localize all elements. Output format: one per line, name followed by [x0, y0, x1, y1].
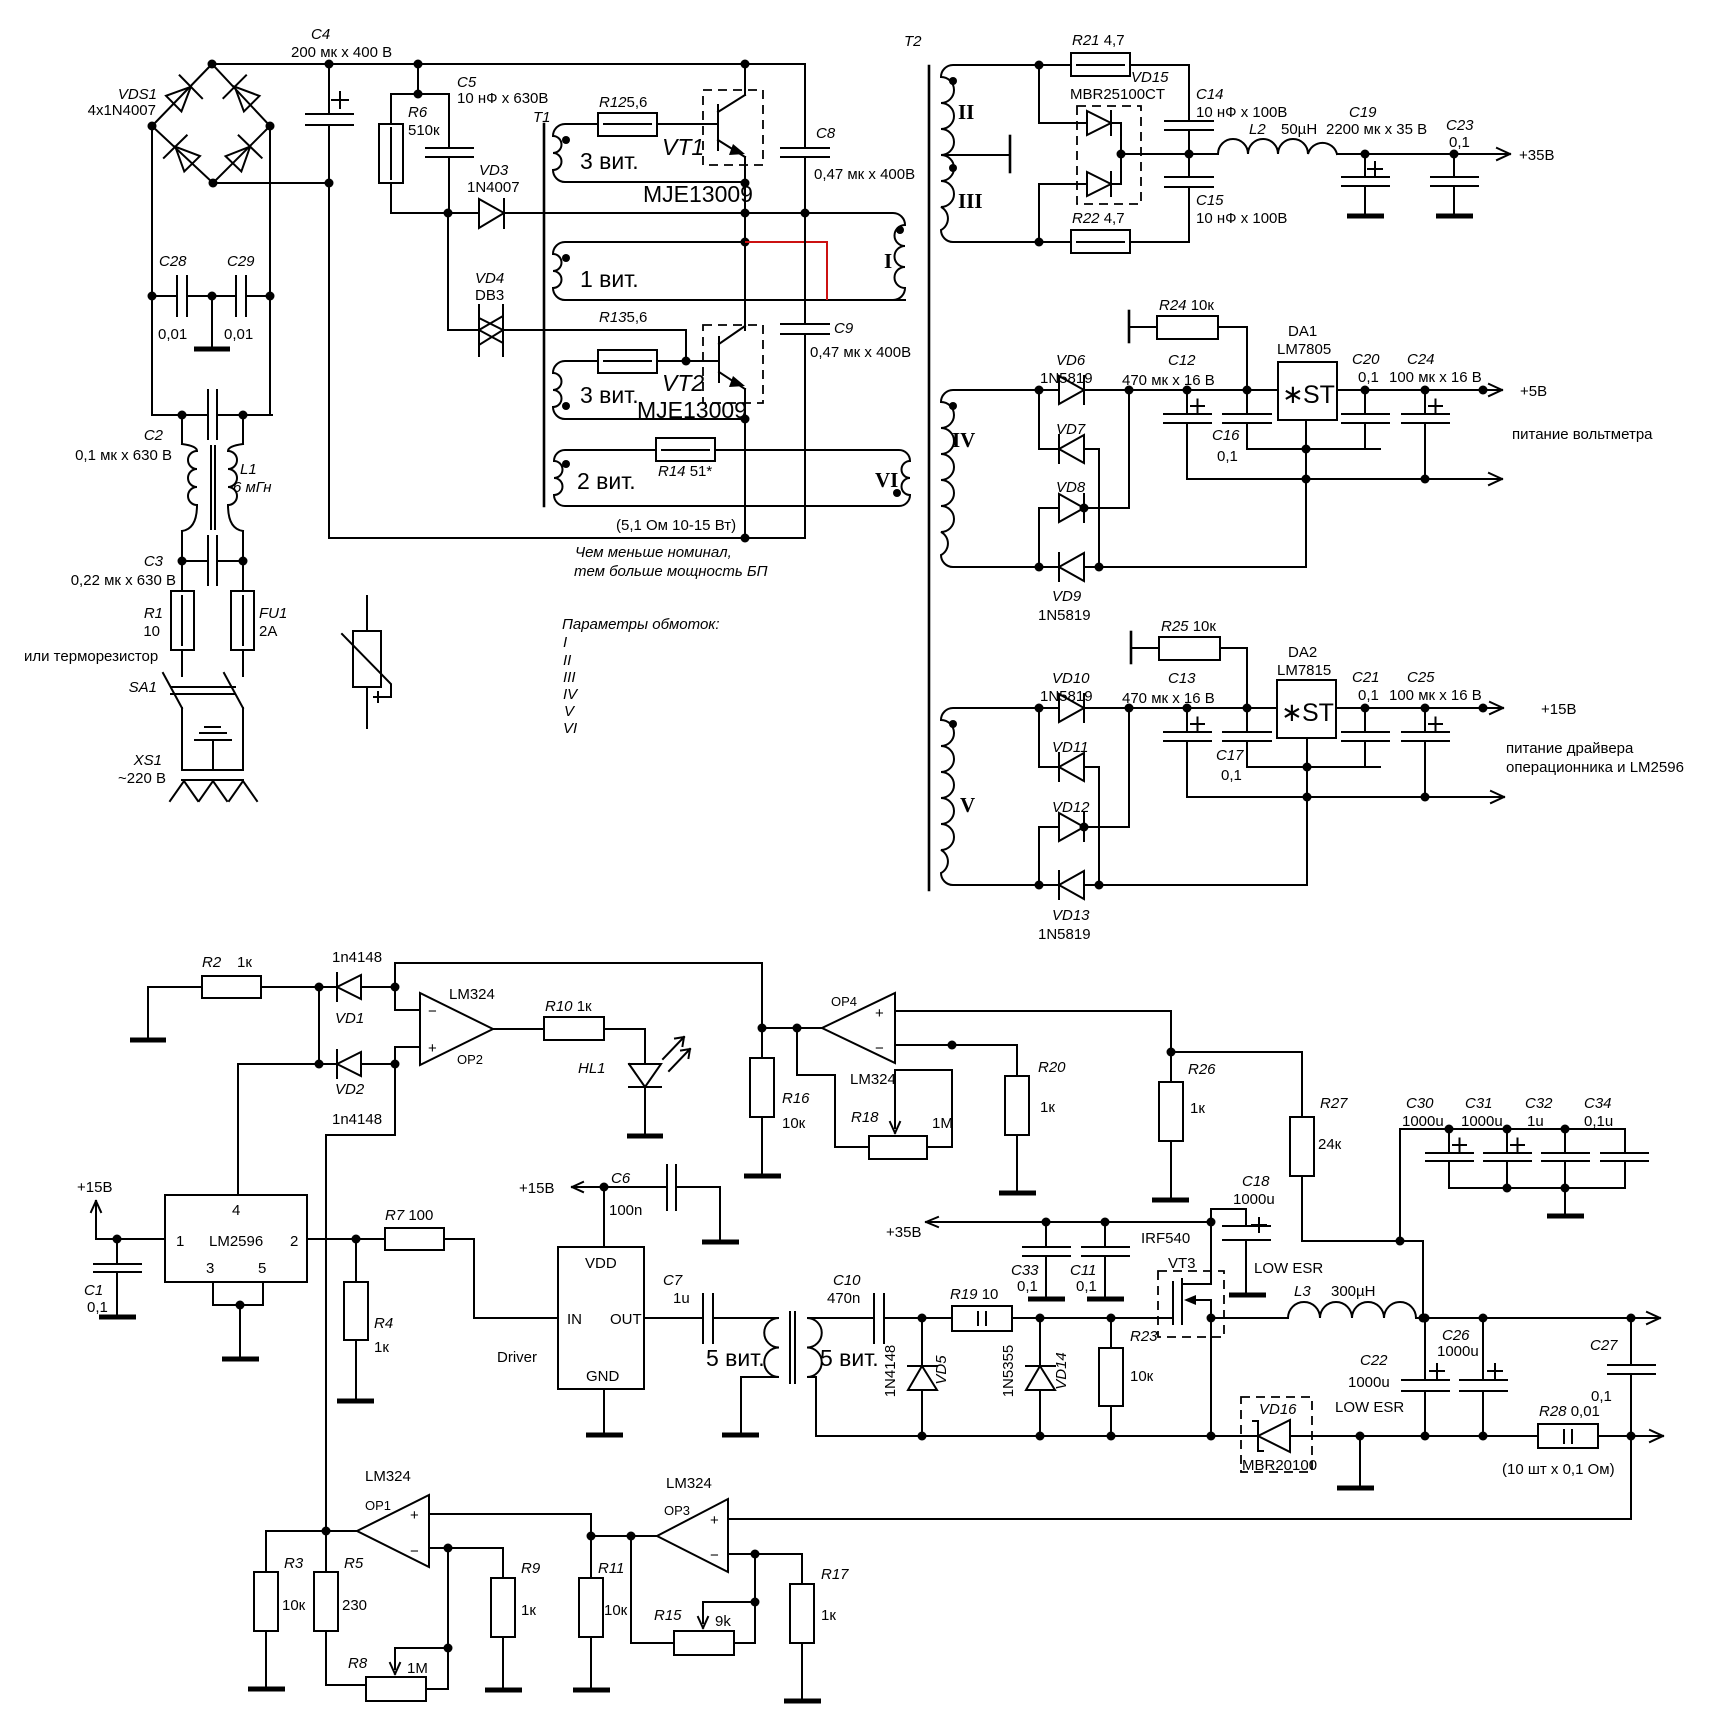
diode VD16 dashed box — [1241, 1397, 1312, 1472]
node L2 input — [1185, 150, 1194, 159]
svg-text:1N5355: 1N5355 — [1000, 1345, 1017, 1398]
svg-text:230: 230 — [342, 1597, 367, 1614]
+35V output wire — [1337, 148, 1510, 160]
svg-text:10к: 10к — [604, 1602, 628, 1619]
diode VD5 — [908, 1318, 937, 1436]
svg-text:(5,1 Ом 10-15 Вт): (5,1 Ом 10-15 Вт) — [616, 517, 736, 534]
svg-text:9k: 9k — [715, 1613, 731, 1630]
resistor R24 with tap bar — [1128, 311, 1131, 342]
svg-text:DB3: DB3 — [475, 287, 504, 304]
svg-text:VD6: VD6 — [1056, 352, 1086, 369]
svg-text:C2: C2 — [144, 427, 164, 444]
svg-text:(10 шт х 0,1 Ом): (10 шт х 0,1 Ом) — [1502, 1461, 1615, 1478]
choke L1 right winding — [228, 444, 243, 531]
svg-text:0,1 мк х 630 В: 0,1 мк х 630 В — [75, 447, 172, 464]
diode VD14 — [1026, 1318, 1055, 1436]
svg-text:R4: R4 — [374, 1315, 393, 1332]
svg-text:5: 5 — [258, 1260, 266, 1277]
svg-text:−: − — [410, 1543, 419, 1560]
mosfet VT3 — [1173, 1222, 1288, 1324]
node +15V out — [1479, 704, 1488, 713]
svg-text:VD9: VD9 — [1052, 588, 1082, 605]
node C25 bottom — [1421, 793, 1430, 802]
node C3 left — [178, 557, 187, 566]
T2 winding II+III coil — [941, 65, 1039, 242]
OP4 inverting input wire — [895, 1044, 1017, 1046]
node C2 right — [239, 411, 248, 420]
resistor R20 — [1016, 1045, 1018, 1192]
svg-text:R16: R16 — [782, 1090, 810, 1107]
capacitor C26 — [1460, 1318, 1507, 1436]
svg-text:R17: R17 — [821, 1566, 849, 1583]
capacitor C16 — [1223, 390, 1380, 449]
svg-text:FU1: FU1 — [259, 605, 287, 622]
OP4 non-inverting input wire — [895, 1011, 1171, 1052]
node VD13 right — [1095, 881, 1104, 890]
svg-text:R6: R6 — [408, 104, 428, 121]
svg-text:или терморезистор: или терморезистор — [24, 648, 158, 665]
node VT3 source — [1207, 1314, 1216, 1323]
svg-text:VI: VI — [875, 468, 898, 492]
svg-text:VD7: VD7 — [1056, 421, 1086, 438]
bottom return rail — [816, 1430, 1663, 1442]
svg-text:Параметры обмоток:: Параметры обмоток: — [562, 616, 720, 633]
node R24 bottom — [1243, 386, 1252, 395]
inductor L3 — [1288, 1302, 1416, 1318]
svg-text:MBR20100: MBR20100 — [1242, 1457, 1317, 1474]
node w2 polarity dot — [562, 254, 570, 262]
svg-text:100 мк х 16 В: 100 мк х 16 В — [1389, 369, 1482, 386]
thermistor alternative part — [366, 596, 368, 728]
node C25 — [1421, 704, 1430, 713]
svg-text:C24: C24 — [1407, 351, 1435, 368]
node C19 — [1361, 150, 1370, 159]
switch SA1 — [163, 673, 243, 708]
svg-text:+15В: +15В — [1541, 701, 1576, 718]
R18 feedback path — [797, 1028, 869, 1147]
svg-text:R14 51*: R14 51* — [658, 463, 712, 480]
svg-text:VI: VI — [563, 720, 577, 737]
feedback node wiring at OP2 — [326, 963, 420, 1531]
plug prongs — [170, 781, 257, 801]
transistor VT1 dashed box — [703, 90, 763, 165]
OP1 non-inverting input wire — [429, 1514, 591, 1536]
svg-text:C28: C28 — [159, 253, 187, 270]
svg-text:4: 4 — [232, 1202, 240, 1219]
bridge diode D3 (bottom-left edge) — [164, 135, 204, 175]
node VD14 bottom — [1036, 1432, 1045, 1441]
svg-text:LM324: LM324 — [365, 1468, 411, 1485]
svg-text:OP1: OP1 — [365, 1498, 391, 1513]
VT3 source to return rail — [1210, 1318, 1212, 1436]
svg-text:LM7805: LM7805 — [1277, 341, 1331, 358]
svg-text:Driver: Driver — [497, 1349, 537, 1366]
node VD2 cathode — [391, 1060, 400, 1069]
wire top rail to R6/C5 pair — [391, 64, 449, 213]
svg-text:1n4148: 1n4148 — [332, 1111, 382, 1128]
top +310V rail — [212, 63, 805, 65]
resistor R23 — [1110, 1318, 1112, 1436]
node R8 wiper — [444, 1644, 453, 1653]
svg-text:C7: C7 — [663, 1272, 683, 1289]
svg-text:470 мк х 16 В: 470 мк х 16 В — [1122, 372, 1215, 389]
svg-text:VD14: VD14 — [1053, 1352, 1070, 1390]
svg-text:R5: R5 — [344, 1555, 364, 1572]
DA1 ground pin — [1305, 420, 1307, 566]
node VT1 emitter / w1 end — [741, 179, 750, 188]
capacitor C19 — [1342, 154, 1389, 215]
node C8 bottom rail — [801, 209, 810, 218]
diode VD3 — [448, 199, 745, 228]
svg-text:VT1: VT1 — [662, 134, 704, 160]
C14/C15 right rail — [1188, 65, 1190, 242]
svg-text:III: III — [958, 189, 983, 213]
node C27 top — [1627, 1314, 1636, 1323]
transistor VT1 — [718, 95, 745, 157]
resistor R17 — [790, 1584, 814, 1643]
diode VD2 — [238, 1050, 395, 1078]
svg-text:LOW ESR: LOW ESR — [1254, 1260, 1323, 1277]
LM2596 pins 3,5 to ground — [213, 1282, 263, 1358]
svg-text:OP3: OP3 — [664, 1503, 690, 1518]
resistor R11 — [590, 1536, 592, 1689]
node OP1 -in — [444, 1544, 453, 1553]
OP2 output feedback wire — [395, 962, 762, 964]
svg-text:C11: C11 — [1070, 1262, 1096, 1279]
svg-text:VD15: VD15 — [1131, 69, 1169, 86]
diode VD12 branch — [1039, 708, 1129, 885]
svg-text:VD2: VD2 — [335, 1081, 365, 1098]
svg-text:XS1: XS1 — [133, 752, 162, 769]
svg-text:1N4148: 1N4148 — [882, 1345, 899, 1398]
capacitor C15 — [1165, 177, 1213, 187]
resistor R5 — [326, 1531, 366, 1685]
diode VD10 — [1039, 694, 1189, 722]
svg-text:+: + — [410, 1507, 419, 1524]
svg-text:C30: C30 — [1406, 1095, 1434, 1112]
resistor R12 — [598, 113, 657, 136]
svg-text:1M: 1M — [407, 1660, 428, 1677]
T1 winding w3 (3 vit) — [553, 361, 745, 419]
capacitor C31 — [1484, 1129, 1531, 1188]
svg-text:2200 мк х 35 В: 2200 мк х 35 В — [1326, 121, 1427, 138]
svg-text:1: 1 — [176, 1233, 184, 1250]
OP1 output wires — [266, 1531, 357, 1572]
svg-text:R20: R20 — [1038, 1059, 1066, 1076]
driver GND wire — [603, 1389, 605, 1434]
resistor R4 — [355, 1239, 357, 1400]
resistor R3 — [254, 1572, 278, 1631]
svg-text:1000u: 1000u — [1402, 1113, 1444, 1130]
node VD8 cathode — [1080, 504, 1089, 513]
node VD6 cathode junction — [1125, 386, 1134, 395]
svg-text:2A: 2A — [259, 623, 277, 640]
capacitor C27 — [1608, 1318, 1655, 1436]
svg-text:R135,6: R135,6 — [599, 309, 647, 326]
svg-text:R19 10: R19 10 — [950, 1286, 998, 1303]
svg-text:0,01: 0,01 — [158, 326, 187, 343]
svg-text:1к: 1к — [374, 1339, 389, 1356]
svg-text:VT3: VT3 — [1168, 1255, 1196, 1272]
node C32 bottom — [1561, 1184, 1570, 1193]
node C24 — [1421, 386, 1430, 395]
node bridge bottom bus — [325, 179, 334, 188]
resistor R6 — [379, 124, 403, 183]
node C27 bottom rail — [1627, 1432, 1636, 1441]
node C12 top — [1183, 386, 1192, 395]
op-amp OP3 — [657, 1499, 728, 1572]
svg-text:I: I — [884, 249, 892, 273]
capacitor C7 — [644, 1294, 772, 1343]
svg-text:C29: C29 — [227, 253, 255, 270]
VD15 diode b — [1087, 172, 1111, 196]
svg-text:1N5819: 1N5819 — [1040, 688, 1093, 705]
node VD3/emitter — [741, 209, 750, 218]
resistor R19 — [952, 1306, 1012, 1331]
regulator DA2 box — [1277, 680, 1336, 738]
VD15 cathode join — [1111, 123, 1218, 184]
svg-text:200 мк х 400 В: 200 мк х 400 В — [291, 44, 392, 61]
svg-text:GND: GND — [586, 1368, 620, 1385]
VD15 diode a — [1087, 111, 1111, 135]
svg-text:100n: 100n — [609, 1202, 642, 1219]
VD1/VD2 anode link — [318, 987, 320, 1064]
svg-text:1N4007: 1N4007 — [467, 179, 520, 196]
svg-text:VDD: VDD — [585, 1255, 617, 1272]
svg-text:R21 4,7: R21 4,7 — [1072, 32, 1125, 49]
svg-text:6 мГн: 6 мГн — [233, 479, 272, 496]
node C22 top — [1421, 1314, 1430, 1323]
node VT2 emitter / w3 end — [741, 415, 750, 424]
svg-text:0,1: 0,1 — [1591, 1388, 1612, 1405]
choke L1 leads — [182, 415, 243, 561]
node winding VI dot — [893, 489, 901, 497]
node winding IV dot — [949, 402, 957, 410]
node C28 left — [148, 292, 157, 301]
svg-text:R22 4,7: R22 4,7 — [1072, 210, 1125, 227]
node winding I dot — [896, 226, 904, 234]
bridge rectifier VDS1 diamond — [152, 64, 270, 183]
driver IC box — [558, 1247, 644, 1389]
node C5/VD3 bottom — [444, 209, 453, 218]
diode VD1 — [319, 973, 395, 1001]
svg-text:470 мк х 16 В: 470 мк х 16 В — [1122, 690, 1215, 707]
svg-text:питание вольтметра: питание вольтметра — [1512, 426, 1653, 443]
capacitor C23 — [1431, 154, 1478, 215]
potentiometer R15 — [674, 1631, 734, 1655]
capacitor C10 — [874, 1294, 922, 1343]
svg-text:2: 2 — [290, 1233, 298, 1250]
capacitor C29 — [212, 276, 270, 316]
inductor L2 — [1218, 139, 1337, 154]
svg-text:IN: IN — [567, 1311, 582, 1328]
node R6/C5 top bar — [414, 90, 423, 99]
svg-text:R10 1к: R10 1к — [545, 998, 592, 1015]
+15V feed to pin1 — [91, 1201, 165, 1239]
choke L1 core — [211, 446, 215, 529]
svg-text:−: − — [875, 1040, 884, 1057]
svg-text:∗: ∗ — [1281, 697, 1303, 727]
node VD10 anode junction — [1035, 704, 1044, 713]
node R23 top — [1107, 1314, 1116, 1323]
capacitor C1 — [94, 1239, 141, 1316]
node VD13 left — [1035, 881, 1044, 890]
resistor R13 — [598, 350, 657, 373]
node bridge bottom — [209, 179, 218, 188]
node VD2 anode — [315, 1060, 324, 1069]
capacitor C9 with rail — [781, 213, 829, 538]
svg-text:1000u: 1000u — [1461, 1113, 1503, 1130]
OP3 inverting input wire — [728, 1554, 802, 1584]
svg-text:C5: C5 — [457, 74, 477, 91]
svg-text:VD5: VD5 — [933, 1355, 950, 1385]
svg-text:C26: C26 — [1442, 1327, 1470, 1344]
svg-text:I: I — [563, 634, 567, 651]
svg-text:OP2: OP2 — [457, 1052, 483, 1067]
regulator LM2596 box — [165, 1195, 307, 1282]
svg-text:R9: R9 — [521, 1560, 541, 1577]
svg-text:R1: R1 — [144, 605, 163, 622]
DA2 ground pin — [1306, 738, 1308, 885]
mosfet VT3 dashed box — [1158, 1271, 1224, 1337]
wire bridge bottom to C4 bottom — [213, 182, 329, 184]
node C26 top — [1479, 1314, 1488, 1323]
node +5V out — [1479, 386, 1488, 395]
node winding III dot — [949, 164, 957, 172]
node VD5 — [918, 1314, 927, 1323]
resistor R21 — [1039, 64, 1189, 66]
svg-text:VT2: VT2 — [662, 370, 704, 396]
svg-text:10к: 10к — [282, 1597, 306, 1614]
svg-text:III: III — [563, 669, 576, 686]
svg-text:VD16: VD16 — [1259, 1401, 1297, 1418]
node C4 top — [325, 60, 334, 69]
svg-text:0,1: 0,1 — [1358, 687, 1379, 704]
node w4 polarity dot — [562, 460, 570, 468]
OP1 inverting input wire — [429, 1548, 503, 1578]
svg-text:0,1: 0,1 — [1221, 767, 1242, 784]
svg-text:~220 В: ~220 В — [118, 770, 166, 787]
node R27 to C30 rail — [1396, 1237, 1405, 1246]
svg-text:1к: 1к — [1040, 1099, 1055, 1116]
svg-text:3: 3 — [206, 1260, 214, 1277]
node winding II dot — [949, 77, 957, 85]
svg-text:C27: C27 — [1590, 1337, 1618, 1354]
resistor R2 — [148, 987, 319, 1039]
svg-text:SA1: SA1 — [129, 679, 157, 696]
+5V rail to DA1 — [1189, 384, 1502, 396]
svg-text:5 вит.: 5 вит. — [706, 1345, 765, 1371]
capacitor C18 — [1211, 1209, 1270, 1294]
svg-text:0,1: 0,1 — [1217, 448, 1238, 465]
svg-text:3 вит.: 3 вит. — [580, 382, 639, 408]
svg-text:+5В: +5В — [1520, 383, 1547, 400]
node C23 — [1450, 150, 1459, 159]
svg-text:DA1: DA1 — [1288, 323, 1317, 340]
svg-text:+15В: +15В — [519, 1180, 554, 1197]
+5V return line — [1187, 473, 1502, 485]
svg-text:DA2: DA2 — [1288, 644, 1317, 661]
svg-text:10 нФ х 100В: 10 нФ х 100В — [1196, 210, 1287, 227]
svg-text:0,1: 0,1 — [1358, 369, 1379, 386]
potentiometer R8 — [366, 1677, 426, 1701]
wire C5 bottom to diac — [448, 213, 479, 330]
svg-text:операционника и LM2596: операционника и LM2596 — [1506, 759, 1684, 776]
capacitor C5 — [426, 148, 473, 157]
svg-text:R2: R2 — [202, 954, 222, 971]
transformer T1 core — [543, 124, 546, 506]
wire VD2 node to LM2596 pin4 — [237, 1064, 239, 1195]
svg-text:LM324: LM324 — [850, 1071, 896, 1088]
svg-text:10 нФ х 630В: 10 нФ х 630В — [457, 90, 548, 107]
winding I of T2 — [745, 213, 905, 300]
node C1 top — [113, 1235, 122, 1244]
capacitor C12 — [1164, 390, 1211, 479]
svg-text:1000u: 1000u — [1348, 1374, 1390, 1391]
node C31 bottom — [1503, 1184, 1512, 1193]
node R18 wiper to -in — [948, 1041, 957, 1050]
svg-text:L1: L1 — [240, 461, 257, 478]
node VT3 source return — [1207, 1432, 1216, 1441]
svg-text:HL1: HL1 — [578, 1060, 606, 1077]
capacitor C22 — [1402, 1318, 1449, 1436]
svg-text:C14: C14 — [1196, 86, 1224, 103]
svg-text:1к: 1к — [1190, 1100, 1205, 1117]
svg-text:MJE13009: MJE13009 — [643, 181, 753, 207]
svg-text:LM324: LM324 — [666, 1475, 712, 1492]
node C33 — [1042, 1218, 1051, 1227]
node III bottom junction — [1035, 238, 1044, 247]
resistor R9 — [491, 1578, 515, 1637]
svg-text:R23: R23 — [1130, 1328, 1158, 1345]
R15 wiper link — [703, 1554, 755, 1642]
node C24 bottom — [1421, 475, 1430, 484]
node w3 polarity dot — [562, 402, 570, 410]
svg-text:C8: C8 — [816, 125, 836, 142]
svg-text:VD12: VD12 — [1052, 799, 1090, 816]
T1 winding w2 (1 vit) — [553, 242, 905, 300]
node return gnd — [1356, 1432, 1365, 1441]
earth symbol inside plug — [195, 727, 231, 770]
svg-text:LM324: LM324 — [449, 986, 495, 1003]
node OP3 -in — [751, 1550, 760, 1559]
node VD15 output — [1117, 150, 1126, 159]
svg-text:C9: C9 — [834, 320, 854, 337]
svg-text:R25 10к: R25 10к — [1161, 618, 1216, 635]
node VT1 collector — [741, 60, 750, 69]
svg-text:0,1: 0,1 — [1076, 1278, 1097, 1295]
node w1 polarity dot — [562, 136, 570, 144]
svg-text:C4: C4 — [311, 26, 330, 43]
node DA1 gnd at return line — [1302, 475, 1311, 484]
svg-text:II: II — [563, 652, 571, 669]
capacitor C2 — [208, 390, 217, 439]
svg-text:0,47 мк х 400В: 0,47 мк х 400В — [810, 344, 911, 361]
capacitor C13 — [1164, 708, 1211, 797]
svg-text:R26: R26 — [1188, 1061, 1216, 1078]
red timing line — [745, 242, 827, 300]
svg-text:24к: 24к — [1318, 1136, 1342, 1153]
plug XS1 body — [182, 708, 243, 780]
C30 block ground — [1564, 1188, 1566, 1215]
op-amp OP4 — [822, 993, 895, 1063]
node C13 top — [1183, 704, 1192, 713]
svg-text:C25: C25 — [1407, 669, 1435, 686]
+15V arrow at driver — [572, 1182, 604, 1192]
winding II/III center tap — [947, 154, 1010, 156]
+35V feed arrow — [926, 1217, 1211, 1227]
regulator DA1 box — [1278, 362, 1337, 420]
